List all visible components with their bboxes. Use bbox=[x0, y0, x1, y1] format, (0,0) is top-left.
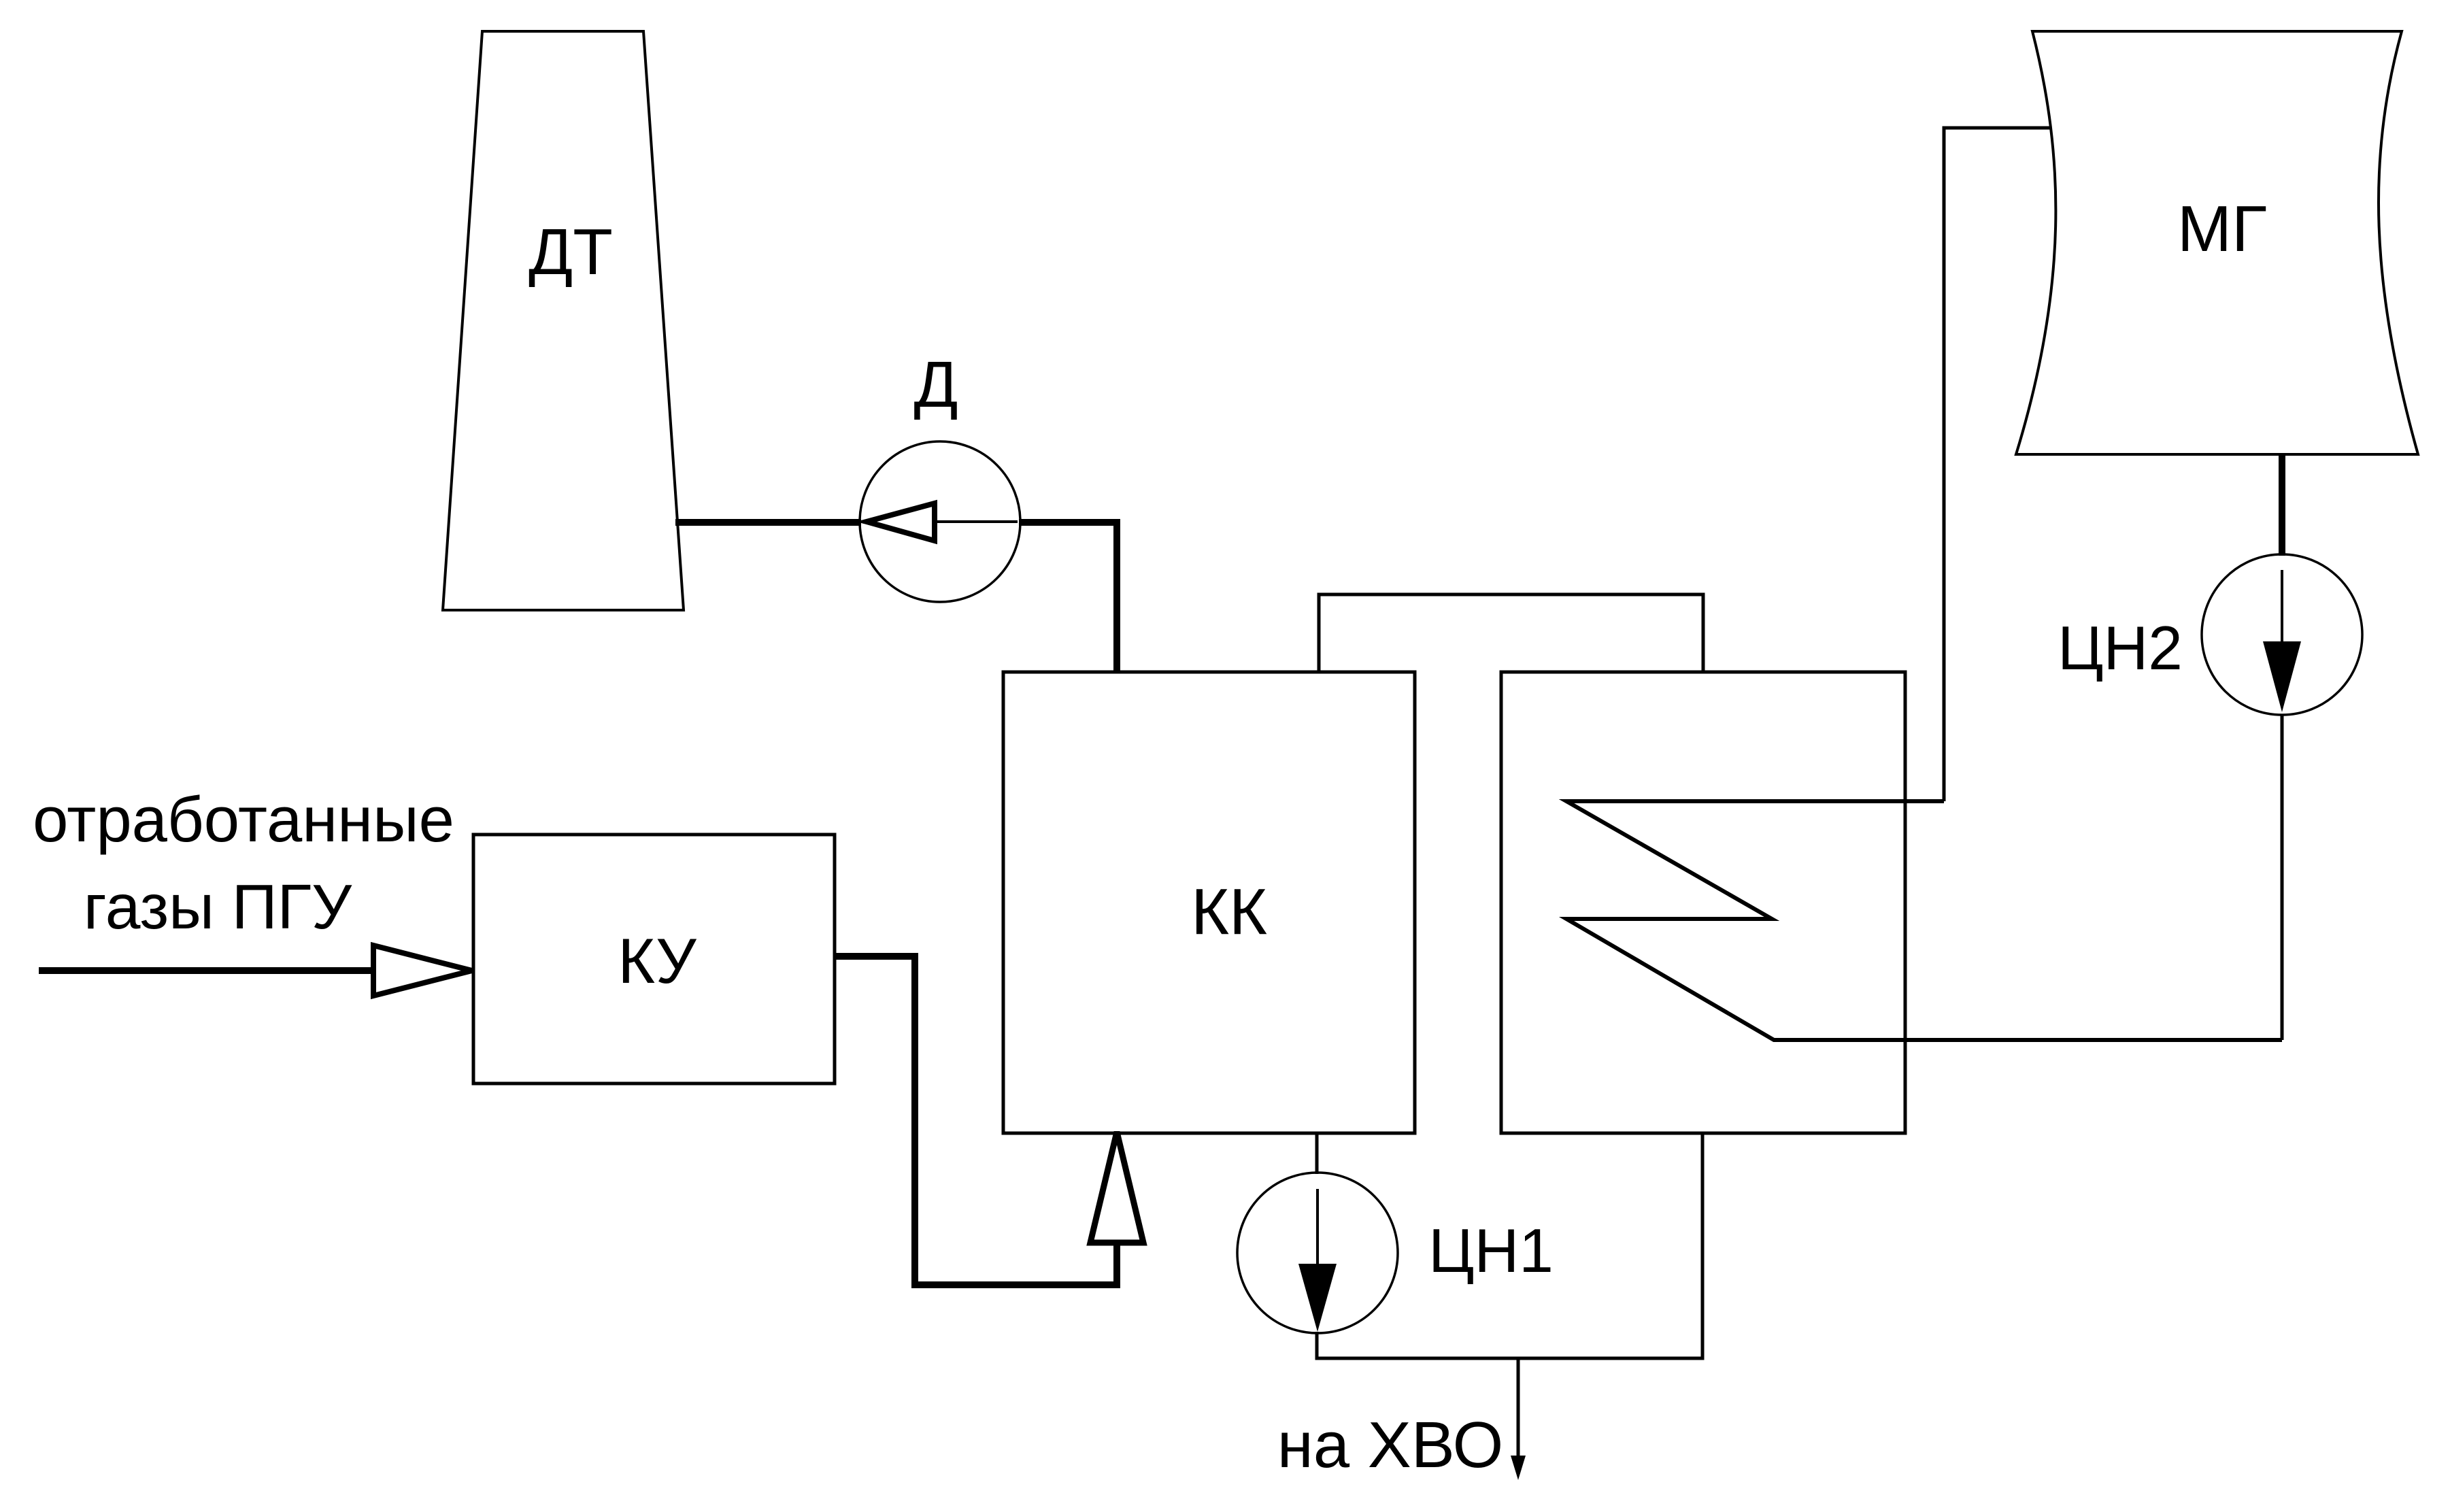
svg-text:ДТ: ДТ bbox=[528, 216, 613, 288]
svg-text:ЦН2: ЦН2 bbox=[2058, 614, 2183, 683]
svg-text:газы ПГУ: газы ПГУ bbox=[84, 871, 352, 942]
svg-text:отработанные: отработанные bbox=[33, 784, 454, 855]
svg-text:КК: КК bbox=[1191, 875, 1267, 948]
svg-text:на ХВО: на ХВО bbox=[1277, 1409, 1504, 1481]
svg-text:Д: Д bbox=[913, 348, 958, 421]
svg-text:МГ: МГ bbox=[2177, 192, 2267, 265]
svg-text:КУ: КУ bbox=[618, 925, 697, 996]
svg-text:ЦН1: ЦН1 bbox=[1428, 1217, 1554, 1286]
